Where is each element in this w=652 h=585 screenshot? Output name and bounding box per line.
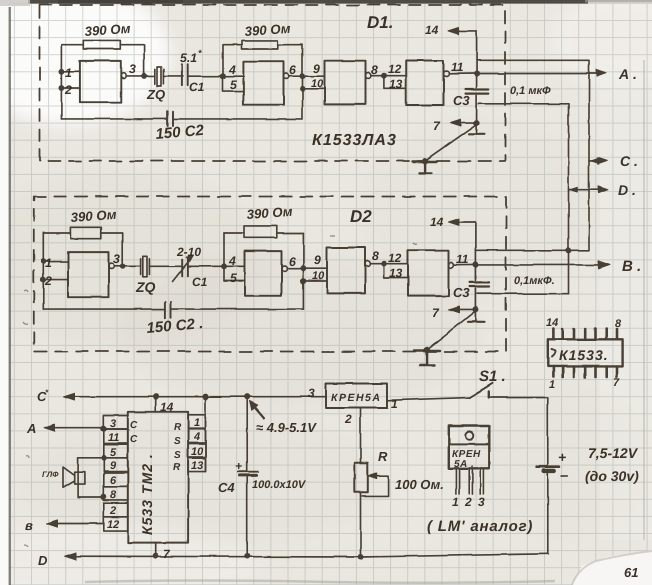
arrowhead C left tick (591, 158, 599, 163)
node: rail-pin2 junction (D2) (41, 278, 45, 282)
capacitor C3 (D2) (470, 282, 489, 286)
svg-text:С1: С1 (192, 275, 208, 289)
svg-text:3: 3 (110, 418, 116, 430)
wire: R bottom to rail (360, 492, 362, 557)
svg-text:1: 1 (65, 66, 72, 80)
svg-text:10: 10 (311, 78, 324, 90)
svg-text:R: R (378, 449, 388, 464)
svg-text:8: 8 (372, 249, 379, 263)
node: A pin3/11 junction (102, 427, 106, 431)
TM2 right pin box 1 (188, 415, 205, 428)
svg-text:1: 1 (45, 256, 52, 270)
wire: pin3 to crystal (D2) (114, 265, 141, 267)
arrowhead annotation (250, 401, 258, 410)
node: pin8/12 junction (D2) (382, 262, 386, 266)
inverter bubble pin8 (D2) (365, 261, 370, 266)
svg-text:R: R (173, 462, 181, 473)
svg-text:C: C (130, 434, 138, 445)
svg-text:–: – (560, 467, 568, 484)
svg-text:R: R (174, 422, 182, 433)
arrowhead D left (65, 553, 77, 560)
node: rail-pin2 junction (59, 86, 63, 90)
svg-text:S1 .: S1 . (479, 368, 506, 385)
wire: pin7 arrow line (454, 122, 477, 124)
wire: pin1 (D2) (43, 261, 68, 263)
capacitor C3 (D1) (466, 90, 489, 94)
svg-text:13: 13 (389, 266, 403, 280)
svg-text:С3: С3 (453, 285, 470, 300)
wire: switch to battery (489, 398, 548, 466)
svg-text:9: 9 (314, 253, 321, 267)
svg-text:4: 4 (193, 431, 200, 443)
wire: D1 left rail (60, 45, 62, 119)
node: pin11/C3 junction (474, 71, 478, 75)
wire: pin11 output to B arrow (454, 264, 600, 266)
svg-text:5: 5 (230, 271, 237, 285)
svg-text:3: 3 (129, 62, 136, 76)
capacitor C4 electrolytic (238, 397, 258, 556)
inverter bubble pin8 (366, 73, 371, 78)
ground (D2) (414, 351, 440, 366)
wire: D1.2 feedback vertical + pin5 (223, 45, 243, 92)
node: pin14 top junction (154, 395, 158, 399)
arrowhead D (598, 186, 608, 193)
wire: pin10 (303, 88, 325, 90)
svg-text:1: 1 (549, 379, 555, 391)
resistor R 390 Ohm (D2 gate1 feedback) (43, 227, 122, 266)
svg-text:7: 7 (433, 119, 441, 133)
wire: crystal to C1 (163, 75, 183, 77)
arrowhead pin7 (451, 119, 462, 126)
svg-text:100 Ом.: 100 Ом. (395, 477, 444, 492)
svg-text:3: 3 (478, 495, 485, 509)
node: pin10 junction (300, 87, 304, 91)
node: C4 bottom junction (245, 554, 249, 558)
node: rail-pin1 junction (59, 69, 63, 73)
svg-text:2: 2 (64, 83, 72, 97)
arrowhead A left (44, 424, 55, 431)
node: bus junction (566, 248, 570, 252)
svg-text:2-10: 2-10 (176, 245, 201, 259)
NAND gate D2.1 (68, 252, 109, 297)
wire: C1 to gate D2.2 input pin4 (189, 265, 245, 267)
TM2 right pin box 4 (188, 429, 205, 443)
svg-text:≈ 4.9-5.1V: ≈ 4.9-5.1V (256, 420, 317, 435)
node: pin7 junction (474, 120, 478, 124)
svg-text:11: 11 (456, 252, 469, 266)
IC package K1533 top pins (553, 329, 617, 340)
wire: crystal to C1 (D2) (149, 265, 181, 267)
svg-text:2: 2 (344, 412, 352, 426)
svg-text:ZQ: ZQ (146, 87, 165, 102)
wire: TM2 pin7 stub (155, 543, 157, 556)
svg-text:в: в (25, 518, 33, 533)
wire: D bottom rail (68, 554, 548, 557)
wire: pin13 tie (384, 76, 406, 89)
svg-text:D1.: D1. (367, 13, 393, 32)
capacitor C1 (D1) (182, 64, 188, 85)
resistor R 390 Ohm (D1 gate1 feedback) (61, 40, 144, 76)
arrowhead A (597, 70, 607, 77)
NAND gate D2.2 (245, 251, 282, 296)
IC package K1533 bottom pins (553, 367, 617, 377)
switch S1 contact tick (488, 392, 490, 398)
resistor R 100 Ohm body (355, 463, 368, 493)
svg-text:6: 6 (110, 475, 117, 487)
wire: pin8 to pin12 (371, 75, 406, 77)
node: R bottom junction (358, 555, 362, 559)
capacitor C2 150 (D2) (43, 302, 303, 318)
inverter bubble pin3 (121, 73, 126, 78)
wire: TM2 pin14 stub (155, 397, 157, 412)
wire: pin6 to pins 9/10 (D2) (287, 268, 327, 270)
arrowhead C net left (64, 393, 75, 400)
NAND gate D1.1 (80, 61, 121, 102)
svg-text:S: S (174, 450, 181, 461)
annotation arrow 4.9-5.1V (253, 405, 264, 418)
TM2 right pin box 13 (188, 458, 205, 471)
TM2 left pin box 6 (104, 473, 128, 487)
arrowhead C (597, 158, 607, 165)
node: speaker top junction (102, 456, 106, 460)
node: pin4 junction (D2) (222, 264, 226, 268)
TM2 left pin box 12 (104, 517, 128, 531)
svg-text:390 Ом: 390 Ом (246, 204, 293, 222)
svg-text:5: 5 (110, 447, 117, 459)
wire: B output arrow to pins 2/12 (49, 523, 104, 525)
node: pin11/C3 junction (D2) (473, 263, 477, 267)
svg-text:13: 13 (191, 460, 203, 472)
svg-text:А: А (26, 421, 36, 436)
TM2 left pin box 3 (104, 416, 128, 430)
IC D3 K533TM2 body (128, 412, 188, 543)
svg-text:К1533ЛА3: К1533ЛА3 (312, 132, 397, 149)
svg-text:390 Ом: 390 Ом (84, 21, 131, 39)
wire: KREN5A pin2 vertical (360, 408, 362, 463)
wire: pin13 tie (D2) (384, 264, 408, 278)
node: pin4 junction (221, 74, 225, 78)
svg-text:В .: В . (622, 258, 641, 275)
svg-text:К533 ТМ2 .: К533 ТМ2 . (139, 453, 155, 535)
svg-text:*: * (198, 48, 202, 58)
svg-text:D: D (38, 553, 48, 568)
svg-text:12: 12 (388, 62, 402, 76)
wire: pin14 arrow line (451, 30, 477, 32)
R wiper loop (362, 476, 388, 496)
wire: C net top line to KREN5A pin3 (66, 396, 326, 398)
svg-text:10: 10 (191, 446, 204, 458)
wire: RS bus vertical (205, 397, 207, 472)
wire: C3 bottom branch to right bus (D2) (477, 293, 569, 295)
speaker driver box (75, 472, 85, 484)
wire: branch to right bus (C net) (477, 60, 589, 250)
battery GB1 long plate (537, 465, 560, 468)
arrowhead pin7 (D2) (449, 306, 460, 313)
svg-text:C3: C3 (453, 93, 470, 108)
node: pin8/12 junction (382, 74, 386, 78)
svg-text:D .: D . (618, 182, 636, 198)
svg-text:4: 4 (228, 63, 236, 77)
svg-text:8: 8 (110, 489, 117, 501)
wire: pin6 to pins 9/10 (289, 75, 325, 77)
wire: below C3 to ground diagonal (476, 96, 478, 134)
node: speaker bottom junction (102, 495, 106, 499)
svg-text:14: 14 (546, 317, 558, 329)
svg-text:1: 1 (194, 417, 200, 429)
TM2 left pin box 8 (104, 487, 128, 501)
svg-text:5А .: 5А . (454, 459, 474, 470)
svg-text:61: 61 (624, 565, 638, 580)
TM2 right pin box 10 (188, 444, 205, 457)
wire: D2 left rail (42, 233, 44, 309)
svg-text:8: 8 (371, 63, 378, 77)
wire: D2 vertical end T-bar (468, 321, 484, 323)
svg-text:2: 2 (44, 274, 52, 288)
wire: branch to right bus (D net) (479, 104, 569, 294)
wire: D2 pin14 feed vertical (474, 222, 476, 280)
wire: KREN5A pin1 to switch (387, 398, 470, 401)
wire: pin2 (D2) (43, 279, 68, 281)
svg-text:S: S (174, 436, 181, 447)
wire: C output arrow (589, 160, 600, 162)
node: pin3 feedback junction (D2) (121, 264, 125, 268)
svg-text:С .: С . (620, 153, 638, 169)
wire: below C3 to ground diagonal (D2) (474, 288, 476, 321)
svg-text:10: 10 (312, 270, 325, 282)
svg-text:14: 14 (425, 23, 439, 37)
trimmer capacitor C1 2-10 (D2) (173, 258, 192, 282)
wire: feedback vertical down to C2 rail (302, 45, 304, 119)
svg-text:( LM' аналог): ( LM' аналог) (427, 518, 533, 535)
arrowhead trimmer C1 (186, 254, 194, 260)
svg-text:12: 12 (107, 519, 119, 531)
inverter bubble pin6 (284, 74, 289, 79)
wire: diagonal to ground (D2) (427, 311, 475, 350)
svg-text:390 Ом: 390 Ом (70, 207, 117, 225)
svg-text:1: 1 (452, 495, 459, 509)
svg-text:0,1 мкФ: 0,1 мкФ (510, 85, 551, 97)
D1 dashed box (40, 5, 506, 161)
resistor R 390 Ohm (D1 gate2 feedback) (223, 40, 303, 49)
svg-text:6: 6 (289, 255, 296, 269)
node: pin3 feedback junction (142, 74, 146, 78)
inverter bubble pin3 (D2) (109, 264, 114, 269)
svg-text:+: + (558, 449, 566, 465)
svg-text:2: 2 (464, 495, 472, 509)
wire: pin10 (D2) (303, 280, 327, 282)
TO-220 divider line (449, 443, 490, 445)
node: pin7 bottom junction (154, 553, 158, 557)
wire: pin8 to pin12 (D2) (370, 263, 408, 265)
IC package notch mark (552, 350, 556, 358)
svg-text:9: 9 (313, 62, 320, 76)
D2 dashed box (34, 197, 506, 352)
svg-text:КРЕН5А: КРЕН5А (331, 392, 381, 404)
svg-text:8: 8 (615, 318, 622, 330)
TM2 left pin box 9 (104, 458, 128, 472)
svg-text:12: 12 (388, 251, 402, 265)
svg-text:390 Ом: 390 Ом (244, 21, 291, 39)
wire: pin2 (61, 87, 80, 89)
arrowhead D left tick (570, 187, 578, 192)
TM2 left pin box 11 (104, 429, 128, 443)
svg-text:5: 5 (230, 78, 237, 92)
wire: D2.2 feedback vertical + pin5 (224, 233, 245, 281)
wire: feedback vertical down to C2 rail (D2) (302, 233, 304, 309)
wire: D output arrow (569, 188, 601, 190)
arrowhead B left (47, 520, 58, 527)
node: ground top junction (423, 159, 427, 163)
crystal ZQ (D1) (155, 67, 164, 87)
arrowhead B (598, 261, 610, 269)
IC package K1533 body (548, 339, 623, 366)
scan edge artifacts (0, 0, 9, 585)
svg-text:100.0х10V: 100.0х10V (252, 479, 307, 491)
resistor R 390 Ohm (D2 gate2 feedback) (224, 226, 303, 238)
wire: D1 pin14 feed vertical (476, 31, 478, 88)
ground (D1) (413, 162, 438, 174)
svg-text:+: + (235, 459, 242, 473)
svg-text:5.1: 5.1 (180, 51, 197, 65)
svg-text:6: 6 (289, 63, 296, 77)
NAND gate D1.2 (243, 62, 283, 105)
svg-text:D2: D2 (350, 207, 372, 226)
svg-text:11: 11 (108, 432, 119, 444)
node: RS bus top junction (203, 395, 207, 399)
inverter bubble pin11 (444, 71, 449, 76)
paper speck marks (23, 236, 417, 547)
TM2 left pin box 5 (104, 444, 128, 458)
TO-220 mounting hole (466, 432, 474, 440)
svg-text:7: 7 (432, 306, 440, 320)
capacitor C2 150 (D1) (61, 112, 302, 126)
node: pin6 junction (300, 74, 304, 78)
TM2 left pin box 2 (104, 503, 128, 517)
svg-text:(до 30v): (до 30v) (585, 468, 639, 484)
arrowhead pin14 (448, 28, 459, 35)
voltage regulator U KREN5A box (326, 384, 387, 409)
arrowhead pin14 (D2) (449, 219, 460, 226)
wire: battery minus to rail (547, 473, 549, 554)
svg-text:7,5-12V: 7,5-12V (588, 445, 639, 461)
wire: speaker tie pins 5/9 (78, 458, 104, 497)
svg-text:13: 13 (389, 77, 403, 91)
wire: pin1 (61, 70, 80, 72)
svg-text:C: C (130, 420, 138, 431)
KREN5A TO-220 package outline (449, 426, 490, 468)
wire: pin3 to crystal (127, 75, 155, 77)
NAND gate D1.3 (325, 61, 366, 105)
node: pin10 junction (D2) (301, 279, 305, 283)
node: rail-pin1 junction (D2) (41, 260, 45, 264)
inverter bubble pin11 (D2) (449, 263, 454, 268)
wire: D2 pin14 branch to buses (475, 249, 589, 251)
arrowhead R wiper (368, 473, 377, 479)
svg-text:14: 14 (160, 400, 174, 414)
speaker horn (63, 467, 75, 488)
wire: A output arrow to pins 3/11 (46, 427, 104, 429)
wire: pin14 arrow line (D2) (452, 221, 476, 223)
svg-text:1: 1 (391, 397, 398, 411)
svg-text:3: 3 (308, 386, 315, 400)
svg-text:2: 2 (109, 505, 116, 517)
svg-text:ГЛФ: ГЛФ (42, 470, 59, 479)
node: pin6 junction (D2) (301, 267, 305, 271)
svg-text:14: 14 (430, 215, 444, 229)
svg-text:3: 3 (113, 252, 120, 266)
inverter bubble pin6 (D2) (282, 266, 287, 271)
NAND gate D2.4 (408, 250, 449, 296)
switch S1 blade (470, 383, 493, 397)
node: ground top junction (D2) (425, 348, 429, 352)
svg-text:А .: А . (618, 66, 637, 82)
svg-text:0,1мкФ.: 0,1мкФ. (514, 275, 555, 287)
svg-text:С4: С4 (218, 480, 235, 495)
svg-text:C1: C1 (189, 80, 205, 94)
wire: pin11 output to A arrow (449, 73, 599, 75)
wire: pin7 arrow line (D2) (452, 308, 475, 310)
wire: diagonal to ground (D1) (425, 125, 477, 161)
svg-text:7: 7 (613, 377, 620, 389)
wire: C1 to gate D1.2 input pin4 (188, 75, 243, 77)
battery GB1 short plate (544, 469, 555, 473)
svg-text:4: 4 (228, 254, 236, 268)
svg-text:11: 11 (451, 60, 464, 74)
wire: D1 vertical end T-bar (469, 133, 484, 135)
svg-text:9: 9 (110, 460, 117, 472)
NAND gate D1.4 (406, 61, 444, 106)
crystal ZQ (D2) (141, 256, 150, 277)
svg-text:К1533.: К1533. (559, 347, 609, 363)
node: pin7 junction (D2) (473, 307, 477, 311)
node: C4 top junction (245, 395, 249, 399)
TO-220 legs (456, 468, 483, 494)
NAND gate D2.3 (327, 248, 365, 294)
svg-text:ZQ: ZQ (135, 279, 156, 295)
